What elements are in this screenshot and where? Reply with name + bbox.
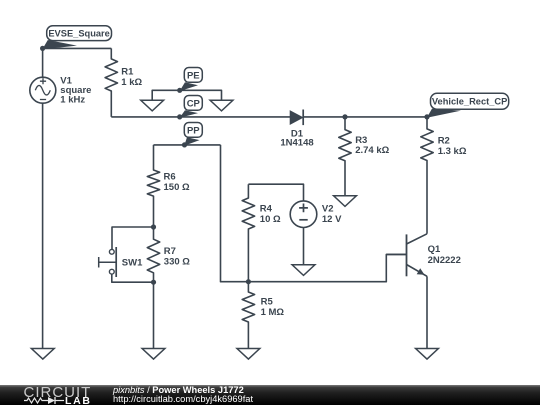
net label PE bbox=[180, 68, 203, 92]
node Vehicle_Rect_CP bbox=[424, 114, 429, 119]
label V1 square 1 kHz bbox=[60, 76, 91, 106]
net label Vehicle_Rect_CP bbox=[427, 93, 509, 118]
svg-text:Vehicle_Rect_CP: Vehicle_Rect_CP bbox=[432, 97, 507, 107]
svg-text:1 kHz: 1 kHz bbox=[60, 94, 85, 105]
resistor R7 bbox=[147, 227, 159, 282]
resistor R3 bbox=[339, 117, 351, 196]
svg-text:R5: R5 bbox=[261, 297, 274, 308]
svg-text:Q1: Q1 bbox=[428, 244, 441, 255]
net label CP bbox=[180, 96, 203, 118]
ground bbox=[142, 349, 165, 360]
wire PE bbox=[152, 90, 221, 100]
svg-text:150 Ω: 150 Ω bbox=[164, 182, 190, 193]
svg-text:1.3 kΩ: 1.3 kΩ bbox=[438, 146, 467, 157]
net label EVSE_Square bbox=[42, 26, 111, 50]
svg-text:2N2222: 2N2222 bbox=[428, 255, 461, 266]
svg-text:R1: R1 bbox=[121, 67, 134, 78]
svg-text:2.74 kΩ: 2.74 kΩ bbox=[355, 145, 389, 156]
resistor R2 bbox=[421, 117, 433, 234]
wire bbox=[42, 103, 44, 348]
label R3 2.74 kΩ bbox=[355, 135, 389, 156]
ground bbox=[141, 100, 164, 111]
svg-text:CP: CP bbox=[187, 98, 201, 109]
svg-text:10 Ω: 10 Ω bbox=[260, 214, 281, 225]
ground bbox=[292, 265, 315, 276]
svg-text:12 V: 12 V bbox=[322, 214, 342, 225]
CircuitLab logo bbox=[0, 385, 100, 405]
label D1 1N4148 bbox=[280, 128, 313, 148]
node R7 SW1 bottom bbox=[151, 280, 156, 285]
wire bbox=[112, 227, 154, 249]
resistor R5 bbox=[242, 282, 254, 349]
wire bbox=[303, 228, 305, 266]
footer text bbox=[113, 386, 253, 405]
wire bbox=[303, 116, 427, 118]
voltage source V1 bbox=[30, 77, 56, 103]
wire bbox=[111, 116, 290, 118]
svg-text:R6: R6 bbox=[164, 172, 176, 183]
svg-text:R3: R3 bbox=[355, 135, 367, 146]
svg-text:R2: R2 bbox=[438, 136, 450, 147]
label Q1 2N2222 bbox=[428, 244, 461, 266]
voltage source V2 bbox=[290, 201, 317, 228]
svg-text:SW1: SW1 bbox=[122, 257, 143, 268]
transistor Q1 bbox=[386, 234, 427, 276]
svg-text:PP: PP bbox=[187, 125, 200, 136]
wire bbox=[153, 282, 155, 348]
wire bbox=[426, 276, 428, 348]
svg-text:PE: PE bbox=[187, 70, 200, 81]
node EVSE bbox=[40, 46, 45, 51]
node PE bbox=[177, 88, 182, 93]
svg-text:330 Ω: 330 Ω bbox=[164, 256, 190, 267]
label R6 150 Ω bbox=[164, 172, 190, 193]
ground bbox=[334, 196, 357, 207]
svg-text:LAB: LAB bbox=[65, 395, 92, 405]
svg-text:1 kΩ: 1 kΩ bbox=[121, 77, 142, 88]
svg-text:R4: R4 bbox=[260, 203, 273, 214]
label R2 1.3 kΩ bbox=[438, 136, 467, 157]
wire bbox=[42, 48, 44, 77]
ground bbox=[237, 349, 260, 360]
resistor R4 bbox=[242, 184, 254, 282]
svg-text:V2: V2 bbox=[322, 203, 334, 214]
label V2 12 V bbox=[322, 203, 342, 224]
wire bbox=[248, 184, 303, 201]
node base R4 R5 junction bbox=[246, 279, 251, 284]
switch SW1 bbox=[99, 247, 117, 277]
label R5 1 MΩ bbox=[261, 297, 285, 318]
wire PP to base net bbox=[221, 145, 407, 282]
diode D1 bbox=[290, 110, 303, 126]
footer bar bbox=[0, 385, 540, 405]
net label PP bbox=[184, 123, 202, 146]
svg-text:1 MΩ: 1 MΩ bbox=[261, 307, 285, 318]
resistor R6 bbox=[147, 145, 159, 227]
label R4 10 Ω bbox=[260, 203, 281, 224]
ground bbox=[416, 349, 439, 360]
wire bbox=[112, 274, 154, 282]
ground bbox=[210, 100, 233, 111]
label R1 1 kΩ bbox=[121, 67, 142, 88]
ground bbox=[31, 349, 54, 360]
node R6 R7 SW1 top bbox=[151, 224, 156, 229]
resistor R1 bbox=[105, 48, 117, 117]
node CP bbox=[177, 114, 182, 119]
label R7 330 Ω bbox=[164, 246, 190, 267]
svg-text:1N4148: 1N4148 bbox=[280, 137, 313, 148]
wire bbox=[43, 47, 112, 49]
node PP bbox=[182, 142, 187, 147]
wire PP bbox=[154, 144, 221, 146]
svg-text:EVSE_Square: EVSE_Square bbox=[48, 29, 110, 39]
node R3 junction bbox=[342, 114, 347, 119]
